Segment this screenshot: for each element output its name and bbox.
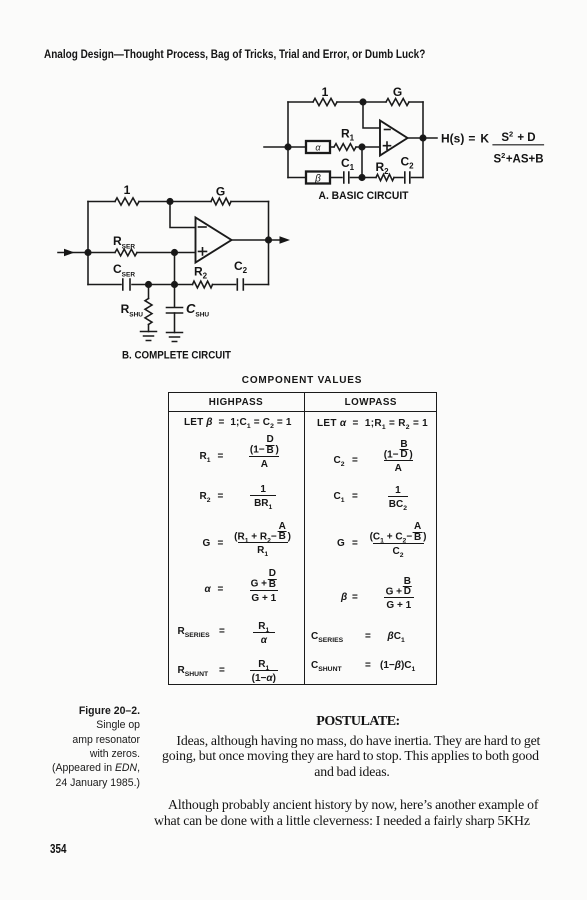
svg-text:S2+AS+B: S2+AS+B: [493, 151, 543, 166]
svg-text:C1: C1: [341, 156, 355, 172]
resistor R_SER (circuit B): [115, 249, 137, 256]
wire C_SHU drop (circuit B): [174, 285, 176, 308]
capacitor C2 (circuit B): [237, 279, 243, 290]
resistor 1 (circuit A): [313, 98, 337, 105]
value label G (circuit B): [216, 185, 225, 199]
value label 1 (circuit A): [322, 85, 329, 99]
header HIGHPASS: [168, 397, 305, 408]
svg-text:S2 + D: S2 + D: [501, 130, 535, 145]
capacitor C1 (circuit A): [344, 172, 349, 183]
wire alpha box to R1 (circuit A): [330, 146, 334, 148]
highpass R1 formula: [200, 451, 211, 462]
lowpass let line: [317, 418, 428, 429]
wire top junction to inverting input (circuit B): [170, 202, 196, 228]
label C2 (circuit A): [401, 155, 415, 171]
highpass G formula: [203, 538, 211, 549]
label C2 (circuit B): [234, 259, 248, 275]
resistor R1 (circuit A): [334, 144, 356, 151]
node R_SHU junction (circuit B): [146, 282, 152, 288]
table title COMPONENT VALUES: [167, 375, 437, 386]
paragraph 2 line 2: [154, 814, 530, 828]
right rail wire (circuit A): [422, 102, 424, 178]
circuit A left rail wire: [287, 102, 289, 178]
wire R_SER to plus node (circuit B): [137, 252, 196, 254]
svg-text:β: β: [314, 174, 321, 185]
circuit A input wire: [264, 146, 288, 148]
svg-text:G: G: [393, 85, 402, 99]
lowpass beta formula: [341, 592, 347, 603]
circuit B top rail wire segments: [88, 201, 269, 203]
header LOWPASS: [305, 397, 438, 408]
value label 1 (circuit B): [124, 183, 131, 197]
table column divider: [304, 392, 306, 685]
capacitor C_SER (circuit B): [123, 279, 130, 290]
svg-text:G: G: [216, 185, 225, 199]
lowpass G formula: [337, 538, 345, 549]
wire R1 to plus node (circuit A): [356, 146, 380, 148]
resistor 1 (circuit B): [115, 198, 139, 205]
circuit A input node junction: [285, 144, 291, 150]
wire R2 to C2 (circuit A): [394, 177, 403, 179]
circuit B input wire: [58, 252, 88, 254]
node C_SHU junction (circuit B): [172, 282, 178, 288]
svg-text:CSHU: CSHU: [186, 301, 209, 319]
wire beta branch left (circuit A): [288, 177, 306, 179]
svg-text:R2: R2: [376, 160, 390, 176]
node bottom rail junction (circuit A): [359, 175, 365, 181]
circuit B input node: [85, 250, 91, 256]
wire C_SHU to ground (circuit B): [174, 313, 176, 333]
node plus input junction (circuit A): [359, 144, 365, 150]
capacitor C2 (circuit A): [405, 172, 410, 183]
lowpass C_SERIES formula: [311, 631, 343, 642]
H(s) numerator S^2+D: [501, 130, 535, 145]
label R2 (circuit B): [194, 265, 208, 281]
label beta (circuit A): [314, 174, 321, 185]
transfer function H(s) label: [441, 132, 489, 146]
label R_SHU: [121, 302, 144, 319]
wire beta box to C1 (circuit A): [330, 177, 342, 179]
output node (circuit B): [266, 237, 272, 243]
circuit B input arrowhead: [64, 249, 75, 257]
wire alpha branch left (circuit A): [288, 146, 306, 148]
op-amp A output wire: [408, 137, 438, 139]
wire C1 to bottom node (circuit A): [351, 177, 363, 179]
attenuator box beta (circuit A): [306, 172, 330, 184]
svg-text:B. COMPLETE CIRCUIT: B. COMPLETE CIRCUIT: [122, 350, 231, 362]
label C_SHU: [186, 301, 209, 319]
lowpass C2 formula: [334, 455, 345, 466]
svg-text:A. BASIC CIRCUIT: A. BASIC CIRCUIT: [319, 190, 409, 202]
caption A. BASIC CIRCUIT: [319, 190, 409, 202]
minus sign op-amp B: [199, 226, 207, 228]
output arrowhead (circuit B): [280, 236, 291, 244]
attenuator box alpha (circuit A): [306, 141, 330, 153]
label C_SER: [113, 262, 135, 279]
op-amp B output wire: [232, 239, 282, 241]
svg-text:1: 1: [124, 183, 131, 197]
table header rule: [168, 411, 438, 413]
paragraph 1 line 2: [162, 749, 539, 763]
resistor R_SHU (circuit B): [145, 299, 152, 325]
svg-text:R2: R2: [194, 265, 208, 281]
right rail wire (circuit B): [268, 202, 270, 285]
svg-text:C2: C2: [234, 259, 248, 275]
svg-text:RSHU: RSHU: [121, 302, 144, 319]
H(s) fraction bar: [493, 144, 544, 146]
resistor G (circuit B): [211, 198, 231, 205]
value label G (circuit A): [393, 85, 402, 99]
svg-text:C2: C2: [401, 155, 415, 171]
highpass R2 formula: [200, 491, 211, 502]
highpass alpha formula: [205, 584, 211, 595]
op-amp U-A (circuit A): [380, 121, 408, 156]
plus sign op-amp A: [384, 142, 391, 149]
svg-text:R1: R1: [341, 127, 355, 143]
output node (circuit A): [420, 135, 426, 141]
node top junction (circuit B): [167, 199, 173, 205]
svg-text:RSER: RSER: [113, 234, 135, 251]
POSTULATE heading: [148, 715, 568, 729]
wire C2 to right rail (circuit A): [412, 177, 424, 179]
caption B. COMPLETE CIRCUIT: [122, 350, 231, 362]
running head: [44, 48, 425, 60]
op-amp U-B (circuit B): [196, 218, 232, 263]
folio 354: [50, 842, 66, 855]
resistor R2 (circuit B): [193, 281, 213, 288]
lowpass C1 formula: [334, 491, 345, 502]
label alpha (circuit A): [315, 143, 321, 153]
highpass R_SERIES formula: [178, 626, 210, 637]
wire R_SER branch left (circuit B): [88, 252, 115, 254]
table outer border: [168, 392, 438, 685]
label R_SER: [113, 234, 135, 251]
label R2 (circuit A): [376, 160, 390, 176]
ground under C_SHU: [167, 333, 183, 342]
wire bottom node to R2 (circuit A): [362, 177, 376, 179]
wire R_SHU to ground (circuit B): [148, 325, 150, 332]
wire R_SHU drop (circuit B): [148, 285, 150, 299]
highpass let line: [184, 417, 292, 428]
plus sign op-amp B: [199, 248, 207, 255]
label C1 (circuit A): [341, 156, 355, 172]
svg-text:α: α: [315, 143, 321, 153]
wire from top junction to inverting input (circuit A): [363, 102, 380, 128]
resistor G (circuit A): [386, 99, 409, 106]
minus sign op-amp A: [385, 129, 391, 131]
wire plus node down to bottom rail (circuit B): [174, 253, 176, 285]
H(s) denominator S^2+AS+B: [493, 151, 543, 166]
circuit A top rail wire segments: [288, 101, 423, 103]
paragraph 2 line 1: [168, 798, 538, 812]
lowpass C_SHUNT formula: [311, 660, 342, 671]
wire plus node down to bottom rail (circuit A): [361, 147, 363, 178]
svg-text:H(s)=K: H(s)=K: [441, 132, 489, 146]
label R1 (circuit A): [341, 127, 355, 143]
figure caption: [48, 704, 140, 790]
paragraph 1 line 1: [176, 734, 540, 748]
svg-text:1: 1: [322, 85, 329, 99]
paragraph 1 line 3: [162, 765, 542, 779]
node at top rail junction (circuit A): [360, 99, 366, 105]
node plus input junction (circuit B): [172, 250, 178, 256]
resistor R2 (circuit A): [376, 174, 394, 180]
highpass R_SHUNT formula: [178, 665, 209, 676]
capacitor C_SHU (circuit B): [167, 308, 183, 314]
bottom rail wire segments (circuit B): [88, 284, 269, 286]
circuit B left rail wire: [87, 202, 89, 285]
ground under R_SHU: [141, 332, 157, 341]
svg-text:CSER: CSER: [113, 262, 135, 279]
